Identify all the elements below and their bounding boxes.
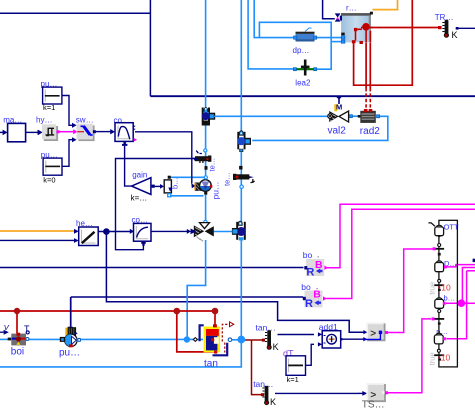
svg-text:rad2: rad2 xyxy=(360,126,380,137)
svg-text:true: true xyxy=(428,282,437,295)
svg-text:B: B xyxy=(313,289,321,301)
svg-text:pu…: pu… xyxy=(59,348,80,359)
svg-text:TS…: TS… xyxy=(362,399,385,410)
svg-text:gain: gain xyxy=(132,170,147,179)
svg-text:te…: te… xyxy=(223,172,232,186)
svg-text:B: B xyxy=(315,259,323,271)
svg-text:R: R xyxy=(305,298,313,310)
svg-text:10: 10 xyxy=(441,282,451,292)
svg-text:K: K xyxy=(273,342,279,352)
svg-text:tan: tan xyxy=(204,359,218,370)
svg-text:R: R xyxy=(306,267,314,279)
svg-text:sw…: sw… xyxy=(76,115,94,124)
svg-text:bo: bo xyxy=(303,250,313,260)
svg-text:lea2: lea2 xyxy=(295,78,311,87)
svg-text:b…: b… xyxy=(444,293,456,302)
svg-text:b…: b… xyxy=(171,177,180,189)
svg-text:>: > xyxy=(370,329,376,340)
svg-text:k=0: k=0 xyxy=(43,175,55,184)
svg-text:K: K xyxy=(452,30,458,40)
svg-text:r…: r… xyxy=(346,3,357,12)
svg-text:boi: boi xyxy=(11,347,24,358)
svg-text:OTT: OTT xyxy=(444,222,459,231)
svg-text:pu…: pu… xyxy=(211,182,221,200)
svg-text:k=…: k=… xyxy=(131,194,148,203)
svg-text:M: M xyxy=(336,103,342,112)
svg-text:K: K xyxy=(270,397,276,407)
svg-text:10: 10 xyxy=(441,352,451,362)
svg-text:ma…: ma… xyxy=(3,116,22,125)
svg-text:val2: val2 xyxy=(328,126,347,137)
svg-text:true: true xyxy=(428,352,437,365)
svg-text:dp…: dp… xyxy=(293,46,310,55)
svg-text:tan…: tan… xyxy=(256,323,276,333)
svg-text:k=1: k=1 xyxy=(287,375,299,384)
svg-text:te…: te… xyxy=(207,158,216,172)
svg-text:hy…: hy… xyxy=(36,115,52,124)
svg-text:TR…: TR… xyxy=(435,13,454,22)
svg-text:k=1: k=1 xyxy=(43,103,55,112)
